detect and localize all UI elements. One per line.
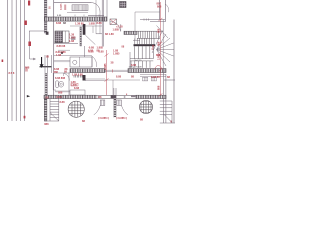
svg-text:1.885: 1.885 xyxy=(113,28,120,32)
svg-text:888: 888 xyxy=(156,53,161,57)
svg-text:|=0.885=|: |=0.885=| xyxy=(98,116,109,120)
svg-text:8 8 8: 8 8 8 xyxy=(9,71,15,75)
svg-text:1.885: 1.885 xyxy=(113,52,120,56)
svg-text:888: 888 xyxy=(157,85,161,90)
svg-text:888: 888 xyxy=(58,90,63,94)
svg-text:1.885: 1.885 xyxy=(71,83,78,87)
svg-text:1.885: 1.885 xyxy=(89,21,96,25)
svg-text:8.88: 8.88 xyxy=(116,75,122,79)
svg-text:|=0.885=|: |=0.885=| xyxy=(116,116,127,120)
svg-text:8.88: 8.88 xyxy=(56,21,62,25)
svg-text:2.885: 2.885 xyxy=(103,63,107,70)
svg-text:1.38 88: 1.38 88 xyxy=(75,21,84,25)
svg-text:1.88: 1.88 xyxy=(56,53,62,57)
svg-text:14x17,5: 14x17,5 xyxy=(134,60,142,62)
svg-text:8.88 88: 8.88 88 xyxy=(57,44,66,48)
svg-text:8.88: 8.88 xyxy=(131,63,137,67)
svg-text:888: 888 xyxy=(44,122,49,125)
svg-text:8.88: 8.88 xyxy=(60,100,66,104)
svg-text:8.88: 8.88 xyxy=(57,95,63,99)
svg-text:8.88: 8.88 xyxy=(97,21,103,25)
svg-text:888: 888 xyxy=(54,70,59,74)
svg-text:8.88: 8.88 xyxy=(74,86,80,90)
svg-text:888: 888 xyxy=(157,41,161,46)
svg-text:8.885: 8.885 xyxy=(59,3,63,10)
svg-text:1.88: 1.88 xyxy=(69,39,75,43)
svg-text:8.88 888: 8.88 888 xyxy=(55,76,66,80)
svg-text:888: 888 xyxy=(157,28,161,33)
svg-text:88 1.88: 88 1.88 xyxy=(105,32,114,36)
svg-text:8.88: 8.88 xyxy=(89,50,95,54)
svg-text:8.88 88: 8.88 88 xyxy=(151,75,160,79)
svg-text:1.88 8.88: 1.88 8.88 xyxy=(72,72,83,76)
svg-text:888: 888 xyxy=(157,4,162,8)
svg-text:8.88: 8.88 xyxy=(99,50,105,54)
